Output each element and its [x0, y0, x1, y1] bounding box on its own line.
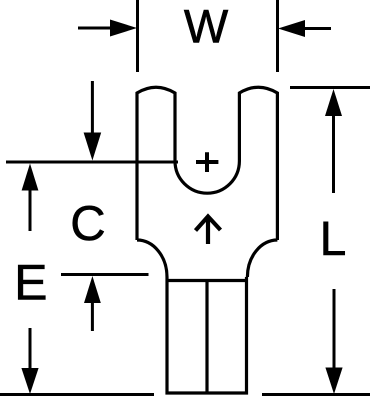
svg-text:E: E: [14, 255, 47, 311]
W left arrow shaft: [78, 27, 112, 30]
svg-text:W: W: [184, 0, 229, 53]
barrel outline: [167, 277, 247, 393]
E up arrowhead: [22, 164, 39, 191]
W left extension line: [136, 0, 139, 72]
svg-text:L: L: [320, 213, 347, 266]
L top reference line: [290, 86, 370, 89]
W right arrow shaft: [303, 27, 331, 30]
bottom reference line right: [262, 393, 370, 396]
E down arrow shaft: [29, 328, 32, 369]
W right extension line: [276, 0, 279, 72]
C down arrowhead: [84, 133, 102, 161]
L up arrowhead: [325, 89, 342, 116]
L down arrowhead: [325, 368, 342, 395]
barrel seam line: [205, 281, 208, 394]
L up arrow shaft: [332, 114, 335, 193]
plus mark on tongue: [196, 152, 218, 172]
up-arrow mark on body: [196, 217, 221, 245]
C up arrow shaft: [91, 301, 94, 331]
terminal fork outline (prongs + slot): [137, 87, 277, 240]
E reference line: [61, 273, 149, 276]
left taper curve: [137, 240, 167, 277]
W left arrowhead: [110, 20, 137, 37]
C reference line: [6, 161, 178, 164]
bottom reference line left: [0, 393, 154, 396]
W right arrowhead: [278, 20, 305, 37]
svg-text:C: C: [70, 197, 105, 251]
C down arrow shaft: [91, 81, 94, 136]
E up arrow shaft: [29, 189, 32, 231]
E down arrowhead: [21, 368, 38, 394]
C up arrowhead: [84, 276, 101, 303]
barrel rim line: [167, 279, 247, 282]
L down arrow shaft: [333, 289, 336, 369]
right taper curve: [247, 240, 277, 277]
